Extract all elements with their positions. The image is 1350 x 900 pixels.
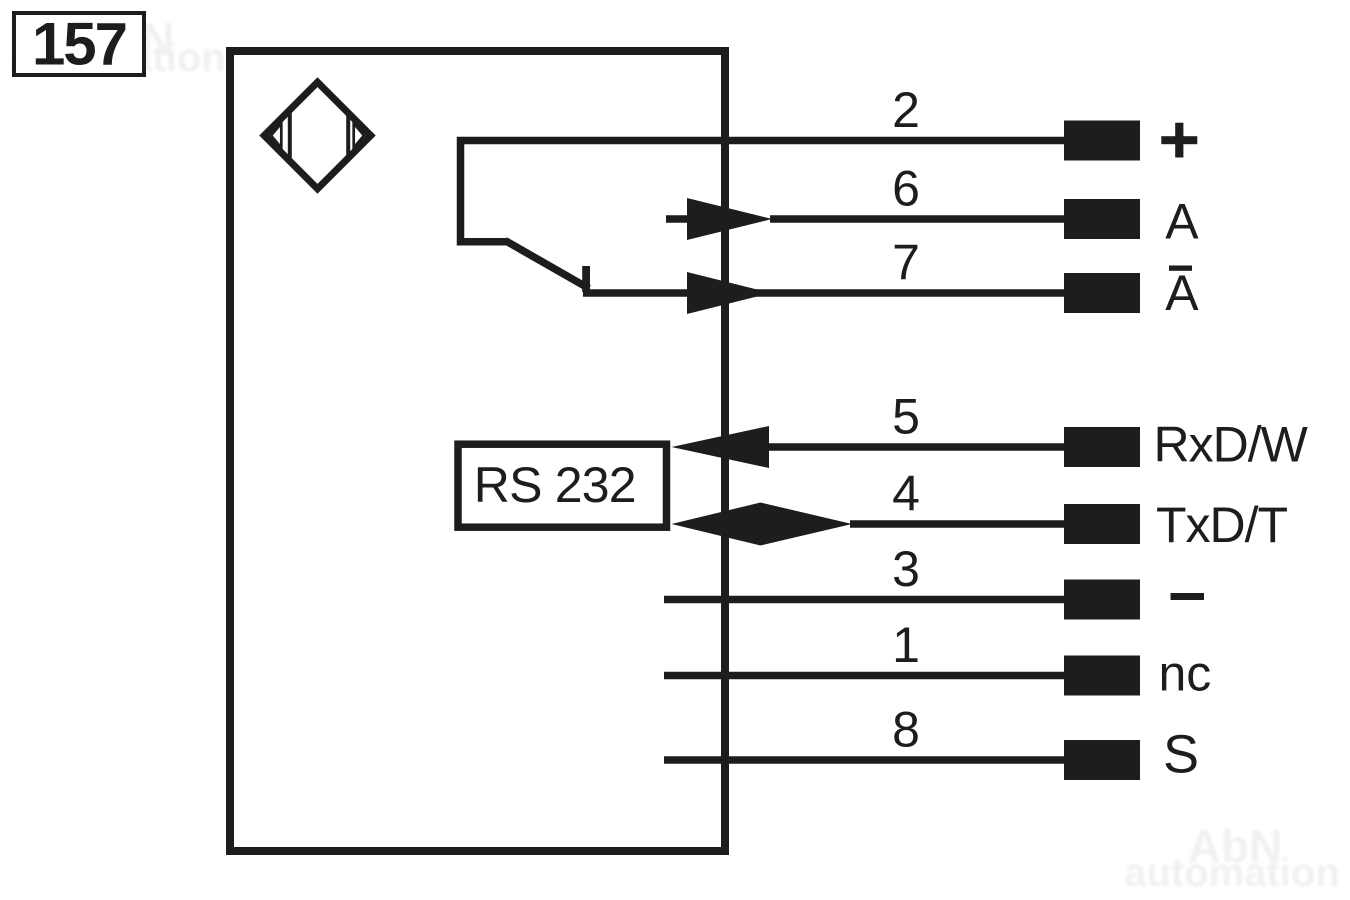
label + (plus sign drawn) — [1161, 123, 1197, 158]
svg-text:7: 7 — [892, 235, 920, 291]
svg-text:4: 4 — [892, 466, 920, 522]
svg-text:8: 8 — [892, 702, 920, 758]
svg-text:A: A — [1165, 265, 1199, 321]
terminal pin 2 — [1064, 121, 1140, 161]
label minus — [1171, 593, 1205, 600]
diagram number box 157 — [14, 13, 144, 75]
svg-text:6: 6 — [892, 161, 920, 217]
svg-text:5: 5 — [892, 389, 920, 445]
wire 1 — [664, 672, 1066, 680]
wire 4 — [850, 520, 1066, 528]
wire 8 — [664, 756, 1066, 764]
svg-text:automation: automation — [1124, 851, 1340, 895]
overbar of A-bar — [1169, 266, 1192, 271]
terminal pin 3 — [1064, 580, 1140, 620]
terminal pin 6 — [1064, 199, 1140, 239]
watermark bottom-right "AbN automation" — [1124, 820, 1340, 895]
switch contact tick — [582, 266, 590, 292]
wire 6 stub — [666, 215, 689, 223]
svg-text:3: 3 — [892, 541, 920, 597]
svg-text:nc: nc — [1159, 646, 1212, 702]
svg-text:157: 157 — [32, 11, 126, 78]
switch lever — [505, 241, 589, 289]
wire 6 — [770, 215, 1066, 223]
terminal pin 4 — [1064, 504, 1140, 544]
wire 2 (+) with feed loop — [461, 141, 1067, 242]
svg-text:1: 1 — [892, 617, 920, 673]
arrow 7 (output) — [687, 272, 771, 314]
terminal pin 8 — [1064, 740, 1140, 780]
svg-text:S: S — [1163, 725, 1199, 785]
svg-text:A: A — [1165, 194, 1199, 250]
optical sensor symbol (diamond) — [264, 82, 371, 189]
terminal pin 7 — [1064, 273, 1140, 313]
wire 5 — [769, 443, 1066, 451]
svg-text:RS 232: RS 232 — [474, 457, 636, 513]
watermark top-left "AbN automation" — [10, 13, 226, 80]
arrow 5 (input) — [672, 426, 770, 468]
terminal pin 1 — [1064, 656, 1140, 696]
RS 232 box — [458, 444, 667, 527]
arrow 4 (bidirectional diamond) — [672, 503, 853, 546]
wire 3 — [664, 596, 1066, 604]
arrow 6 (output) — [687, 198, 772, 240]
terminal pin 5 — [1064, 427, 1140, 467]
device outline — [230, 51, 725, 851]
svg-text:RxD/W: RxD/W — [1154, 417, 1309, 473]
svg-text:TxD/T: TxD/T — [1156, 497, 1288, 553]
wire 7 — [583, 289, 1066, 297]
svg-text:2: 2 — [892, 82, 920, 138]
